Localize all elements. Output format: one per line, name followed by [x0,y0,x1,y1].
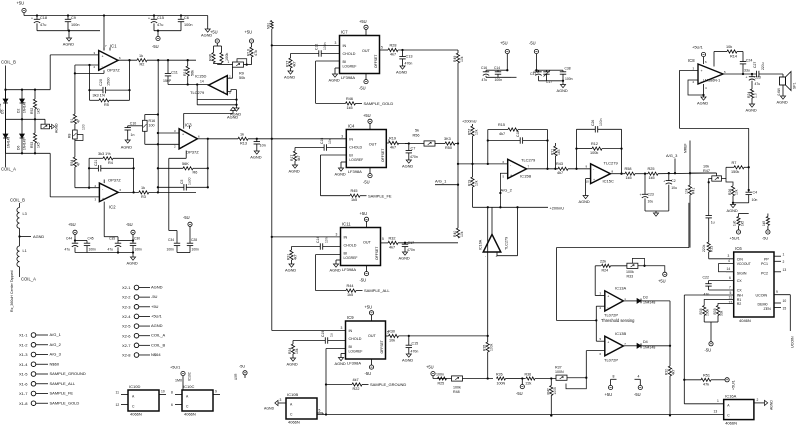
IC IC4 LF398A [346,130,386,168]
op-amp IC13A TL072P [605,291,624,311]
svg-text:R49: R49 [453,56,457,62]
wire IC8 -in feedback [688,80,704,95]
svg-text:CHOLD: CHOLD [349,337,362,341]
wire node coil_b to IC1 [50,54,98,56]
svg-text:100: 100 [149,124,155,128]
svg-text:R4: R4 [108,161,113,165]
svg-text:100n: 100n [167,248,175,252]
wire IC1 bottom pin [103,70,105,73]
svg-text:C6: C6 [184,16,189,20]
svg-text:10k: 10k [389,339,395,343]
svg-text:5: 5 [319,408,321,412]
svg-text:X1-6: X1-6 [19,381,28,386]
svg-text:R25: R25 [648,167,655,171]
svg-text:+: + [182,133,184,137]
svg-text:-5U: -5U [634,392,641,397]
svg-text:+: + [31,17,33,21]
resistor R44 1k5 sample [316,290,346,292]
wire [399,335,488,337]
resistor R6 56K feedback [158,167,183,169]
wire R37 wiper loop [566,378,586,389]
svg-text:TLC279: TLC279 [521,158,536,163]
svg-text:1k5: 1k5 [347,106,353,110]
resistor R46 100k [216,43,218,46]
svg-text:C15: C15 [157,16,164,20]
resistor R41 10k [689,173,691,185]
svg-text:UCOIN: UCOIN [756,294,768,298]
svg-text:COIL_B: COIL_B [1,60,16,65]
svg-text:IN: IN [343,44,347,48]
ground AGND [402,252,407,255]
power -5V IC9 [371,359,373,365]
svg-text:IC10C: IC10C [188,371,192,381]
wire [463,378,494,380]
svg-text:IC16A: IC16A [725,394,736,399]
wire IC15B +in / A/G_2 [500,173,507,207]
wire to trimmer wiper [690,172,717,174]
trimmer R9 50k [233,62,244,67]
resistor R53 1k5 [34,119,36,133]
svg-text:4k7: 4k7 [389,245,395,249]
IC IC6 4046N [734,252,774,317]
resistor R43 4k7 [558,167,568,170]
svg-text:AGND: AGND [33,234,44,239]
svg-text:+5U/1: +5U/1 [730,237,740,241]
svg-text:22k: 22k [600,260,606,264]
wire +200mV row [473,206,549,208]
capacitor C21 feedback [88,158,90,187]
svg-text:INH: INH [737,294,744,298]
wire N$1 to IC9 IN [272,330,346,332]
svg-text:4066N: 4066N [288,420,300,425]
wire [568,168,591,170]
wire IC6 right pins [774,255,781,257]
svg-text:AGND: AGND [121,145,132,150]
svg-text:+5U: +5U [68,222,76,227]
wire INH pin5 [684,294,733,296]
wire IC8 output [723,73,757,75]
wire R33 to IC13A +in [594,266,596,296]
svg-text:D3: D3 [643,295,648,299]
svg-text:47u: 47u [755,82,761,86]
svg-text:10k: 10k [726,45,732,49]
svg-text:SP1: SP1 [793,82,797,89]
svg-text:100k: 100k [706,308,710,316]
svg-text:X1-4: X1-4 [19,362,28,367]
trimmer R8 100 [74,124,76,130]
svg-text:C35: C35 [109,237,115,241]
svg-text:R3: R3 [141,195,146,199]
svg-text:D4: D4 [643,340,648,344]
svg-text:SAMPLE_GROUND: SAMPLE_GROUND [370,382,406,387]
svg-text:C14: C14 [494,66,500,70]
wire [19,267,21,277]
svg-text:+: + [593,178,595,182]
svg-text:AGND: AGND [330,268,341,273]
svg-text:C26: C26 [591,120,595,126]
svg-text:+5U: +5U [426,365,434,370]
svg-text:AGND: AGND [285,268,296,273]
svg-text:4k7: 4k7 [557,171,563,175]
capacitor C13 470n [402,50,404,57]
svg-text:CHOLD: CHOLD [344,244,357,248]
op-amp IC3 OP37Z [179,129,197,149]
svg-text:R35: R35 [483,345,487,351]
resistor R50 3k3 [435,143,445,145]
ground AGND [780,96,785,99]
svg-text:100n: 100n [135,248,143,252]
svg-text:C18: C18 [40,16,47,20]
svg-text:4k7: 4k7 [390,53,396,57]
svg-text:R33: R33 [627,274,634,278]
svg-text:LM386N-1: LM386N-1 [703,79,720,83]
svg-text:R9: R9 [239,72,244,76]
svg-text:AGND: AGND [250,155,261,160]
wire IC15D -in [227,77,232,79]
svg-text:R18: R18 [183,69,187,76]
ground AGND [560,85,565,88]
svg-text:C44: C44 [66,237,72,241]
node SAMPLE_FE [360,195,367,197]
IC IC16A 4066 switch [724,400,754,420]
svg-text:X2-3: X2-3 [122,304,131,309]
svg-text:C12: C12 [315,44,319,50]
svg-text:R19: R19 [468,180,472,186]
svg-text:A/G_1: A/G_1 [50,332,62,337]
svg-text:C5: C5 [180,180,184,184]
svg-text:1: 1 [783,252,785,256]
svg-text:C2: C2 [671,179,675,183]
capacitor C4 10n [746,191,752,193]
wire to IC6 CIN [709,258,734,260]
svg-text:AGND: AGND [287,362,298,367]
svg-text:4k7: 4k7 [297,155,301,161]
svg-text:AGND: AGND [396,70,407,75]
resistor R19 4k7 [389,141,399,144]
svg-text:+5U/1: +5U/1 [151,313,163,318]
capacitor C28 100n [189,241,191,244]
svg-text:-: - [223,78,224,82]
svg-text:4066N: 4066N [725,421,737,426]
resistor R2 1k [137,59,147,62]
svg-text:R2: R2 [140,63,145,67]
wire IC7 OUT [380,49,389,51]
resistor R21 1k5 [554,143,556,146]
resistor R12 100k feedback [577,148,593,150]
svg-text:CIN: CIN [737,257,744,261]
svg-text:X2-1: X2-1 [122,285,131,290]
capacitor C23 10u [644,174,646,195]
svg-text:10k: 10k [685,188,689,194]
svg-text:-: - [607,306,608,310]
capacitor C12 100n chold [291,53,319,55]
ground AGND IC10B [278,402,286,404]
speaker SP1 [782,74,784,78]
svg-text:47u: 47u [482,78,488,82]
svg-text:AGND: AGND [227,115,238,120]
svg-text:100: 100 [82,124,86,130]
wire [23,13,25,16]
resistor R27 4k7 [290,54,292,59]
svg-text:IC6: IC6 [735,246,742,251]
svg-text:A/G_2: A/G_2 [50,342,62,347]
svg-text:IC15C: IC15C [603,179,614,184]
svg-text:1k5: 1k5 [626,176,632,180]
svg-text:CHOLD: CHOLD [349,146,362,150]
capacitor C7 470n [405,143,409,145]
svg-text:COIL_B: COIL_B [10,198,25,203]
svg-text:9: 9 [215,390,217,394]
ground AGND [207,16,209,30]
wire signal to R13 [208,138,238,140]
wire IC6 INH to switch [684,403,723,405]
svg-text:C18: C18 [516,131,520,137]
svg-text:C4: C4 [753,191,758,195]
svg-text:AGND: AGND [335,361,346,366]
svg-text:14: 14 [200,80,204,84]
svg-text:3K3: 3K3 [444,137,451,141]
op-amp IC15D TLC279 [209,76,228,95]
svg-text:470n: 470n [405,62,413,66]
svg-text:OUT: OUT [362,49,371,53]
svg-text:BI: BI [349,154,352,158]
svg-text:470n: 470n [407,248,415,252]
svg-text:100n: 100n [71,23,79,27]
svg-text:D2: D2 [17,109,21,113]
wire IC8 gnd pin [703,84,705,95]
svg-text:10n: 10n [328,138,332,144]
wire IC1 -in [75,64,99,66]
svg-text:IC15B: IC15B [520,174,531,179]
svg-text:14: 14 [727,267,731,271]
svg-text:1k5: 1k5 [649,176,655,180]
node SAMPLE_GOLD [356,102,363,104]
resistor R30 10k [389,334,399,337]
svg-text:R47: R47 [703,169,710,173]
svg-text:SAMPLE_FE: SAMPLE_FE [368,193,392,198]
svg-text:R2: R2 [737,302,742,306]
svg-text:Threshold sensing: Threshold sensing [601,318,635,323]
svg-text:10k: 10k [474,180,478,186]
svg-text:IC10B: IC10B [287,392,298,397]
ground AGND [292,165,297,168]
wire logic pin8 IC11 [316,254,341,256]
ground AGND [288,71,293,74]
svg-text:12: 12 [729,300,733,304]
svg-text:IC8: IC8 [688,58,695,63]
svg-text:100n: 100n [495,78,503,82]
svg-text:AGND: AGND [151,323,163,328]
wire N$1 to IC7 IN [272,44,340,46]
svg-text:COIL_A: COIL_A [1,167,16,172]
svg-text:C16: C16 [481,66,487,70]
svg-text:5k: 5k [415,129,419,133]
svg-text:1u: 1u [711,221,715,225]
svg-text:3: 3 [728,254,730,258]
wire diode rail bottom [6,152,51,154]
svg-text:11: 11 [116,391,120,395]
svg-text:X2-2: X2-2 [122,295,131,300]
svg-text:IC9: IC9 [347,315,354,320]
svg-text:BI: BI [349,345,352,349]
svg-text:10k: 10k [474,129,478,135]
resistor R46 1k5 sample [316,102,346,104]
svg-text:56K: 56K [182,162,189,166]
ground AGND [68,30,70,32]
svg-text:R48: R48 [453,390,460,394]
IC IC10B 4066 [286,398,317,419]
power -5V IC7 [365,74,367,80]
svg-text:UCOIN: UCOIN [791,336,795,348]
svg-text:R34: R34 [288,348,292,354]
svg-text:4066N: 4066N [184,412,196,417]
svg-text:-: - [607,351,608,355]
svg-text:-5U: -5U [183,215,190,220]
wire R1 pin11 [704,300,734,306]
wire comparator inputs [487,207,489,342]
svg-text:AGND: AGND [55,123,59,133]
svg-text:-5U: -5U [152,44,159,49]
svg-text:47k: 47k [254,50,258,56]
svg-text:X2-5: X2-5 [122,324,131,329]
power +5V IC11 [366,221,368,227]
svg-text:R28: R28 [390,44,397,48]
svg-text:IC16A: IC16A [479,239,483,250]
resistor R52 1k5 [34,90,36,99]
diode D5 BAT41 [5,90,7,99]
diode D2 1N4148 [21,90,23,99]
svg-text:SAMPLE_ALL: SAMPLE_ALL [364,288,390,293]
svg-text:10u: 10u [671,186,677,190]
svg-text:C11: C11 [171,71,178,75]
wire comparator out [491,207,493,234]
svg-text:+5U: +5U [245,30,253,35]
svg-text:OFFSET: OFFSET [374,55,378,68]
svg-text:-5U: -5U [529,41,536,46]
svg-text:100n: 100n [599,118,603,126]
svg-text:R19: R19 [389,137,396,141]
capacitor C30 100n [132,241,134,244]
svg-text:150P: 150P [163,79,172,83]
wire IC4 OUT [386,142,389,144]
svg-text:IN: IN [349,138,353,142]
svg-text:+: + [663,179,665,183]
svg-text:OP37Z: OP37Z [108,178,121,183]
capacitor C38 100n [549,69,563,71]
svg-text:IC7: IC7 [341,30,348,35]
svg-text:PP: PP [764,257,769,261]
wire [37,30,100,32]
ground AGND [290,358,295,361]
wire IC2 V- route [103,204,105,237]
svg-text:R25: R25 [438,381,445,385]
capacitor C20 feedback [89,65,91,100]
svg-text:10k: 10k [460,231,464,237]
wire [641,300,670,302]
svg-text:IC4: IC4 [348,124,355,129]
ground AGND logref IC11 [336,259,341,261]
svg-text:OUT: OUT [368,334,377,338]
svg-text:100k: 100k [553,387,557,395]
svg-text:1N4148: 1N4148 [23,102,27,113]
svg-text:5: 5 [382,237,384,241]
svg-text:100N: 100N [555,370,564,374]
svg-text:1k5: 1k5 [347,293,353,297]
svg-text:22k: 22k [526,381,532,385]
ground AGND [732,203,734,205]
svg-text:CX: CX [737,289,743,293]
svg-text:C19: C19 [321,331,325,337]
wire feedback verticals [576,129,578,169]
diode D4 1N4148 [623,345,637,347]
svg-text:8: 8 [613,374,615,378]
svg-text:3: 3 [280,398,282,402]
wire [118,240,133,242]
ground AGND [655,211,657,213]
svg-text:C7: C7 [411,147,416,151]
capacitor C15 [153,14,155,16]
IC IC11 LF398A [341,228,381,266]
wire [147,59,196,61]
wire center tap AGND [19,228,21,246]
svg-text:100n: 100n [323,42,327,50]
svg-text:47k: 47k [703,382,709,386]
svg-text:OP37Z: OP37Z [186,150,199,155]
svg-text:+5U/1: +5U/1 [692,45,704,50]
svg-text:BAT41: BAT41 [0,103,2,113]
svg-text:+5U/1: +5U/1 [170,366,180,370]
svg-text:R13: R13 [240,141,247,145]
svg-text:AGND: AGND [697,101,708,106]
svg-text:R32: R32 [389,237,396,241]
resistor R54 47 [74,139,76,157]
resistor R22 4k7 sample [326,384,352,386]
op-amp IC15C TLC279 [591,164,611,184]
svg-text:3: 3 [335,41,337,45]
svg-text:A/G_1: A/G_1 [435,179,447,184]
svg-text:LF398A: LF398A [341,75,355,80]
svg-text:IC15D: IC15D [195,74,206,79]
svg-text:C15: C15 [412,342,419,346]
svg-text:1k5: 1k5 [351,198,357,202]
svg-text:SAMPLE_ALL: SAMPLE_ALL [50,381,76,386]
svg-text:IC10D: IC10D [129,384,140,389]
svg-text:15: 15 [783,306,787,310]
wire [645,210,669,212]
wire IC10B out [317,412,323,414]
power -5V supply symbol [157,30,159,32]
svg-text:+: + [510,174,512,178]
svg-text:R12: R12 [591,142,598,146]
node COIL_A label [5,153,7,167]
svg-text:15k: 15k [295,348,299,354]
svg-text:150k: 150k [731,170,739,174]
wire [168,84,209,86]
svg-text:0.6W: 0.6W [777,88,781,95]
svg-text:10k: 10k [735,189,739,195]
svg-text:1k: 1k [141,186,145,190]
svg-text:OUT: OUT [363,241,372,245]
wire [635,173,648,175]
svg-text:ZEN: ZEN [764,307,772,311]
svg-text:1k5: 1k5 [37,142,41,148]
wire bottom rail to pin13 [317,414,724,416]
svg-text:-5U: -5U [126,222,133,227]
resistor R58 1k5 [625,172,635,175]
capacitor 100n [497,70,499,72]
resistor R17 4k7 [294,148,296,152]
svg-text:1k5: 1k5 [557,149,561,155]
